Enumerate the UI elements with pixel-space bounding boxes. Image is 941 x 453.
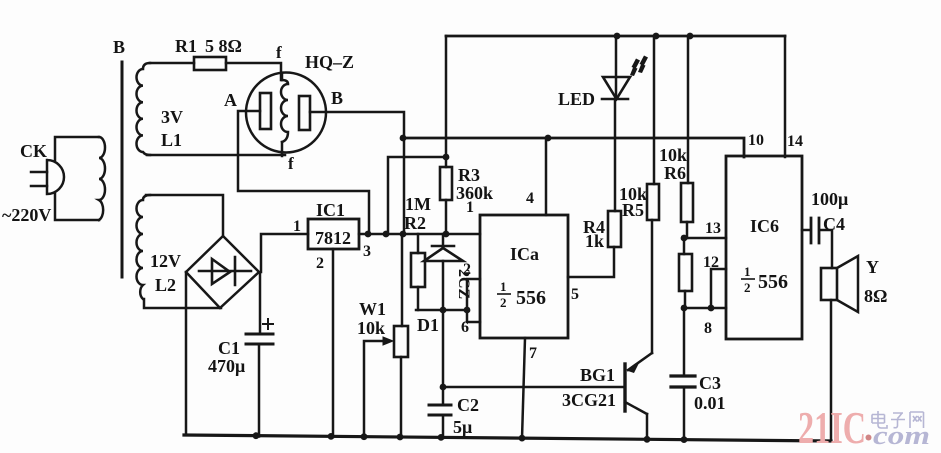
wire ICa pin4 to B-net xyxy=(545,138,548,215)
label 3V L1 xyxy=(161,107,183,150)
wire IC6 output stub to C4 xyxy=(802,229,810,232)
label pin 8 IC6 xyxy=(704,320,712,337)
tube HQ-Z envelope xyxy=(246,73,326,153)
capacitor C3 xyxy=(671,376,695,387)
svg-text:IC1: IC1 xyxy=(316,200,345,220)
label R6 value xyxy=(659,145,687,183)
winding L1 xyxy=(137,63,151,155)
svg-text:10: 10 xyxy=(748,132,764,149)
svg-text:100μ: 100μ xyxy=(811,189,848,209)
wire R6 bottom to node 13 xyxy=(686,222,689,238)
tube electrode B plate xyxy=(299,96,310,130)
wire R3 upper branch horizontal xyxy=(388,157,446,234)
regulator IC1 7812 box xyxy=(308,219,359,249)
svg-text:R3: R3 xyxy=(458,165,480,185)
label IC6 half 556 xyxy=(744,264,788,295)
svg-text:B: B xyxy=(331,88,343,108)
wire BG1 base wire xyxy=(443,386,624,389)
label D1 xyxy=(417,315,439,335)
resistor R7 unlabeled xyxy=(679,254,692,291)
wire node 8 down to C3 xyxy=(683,308,686,376)
label 2CZ rotated xyxy=(455,269,472,299)
label pin 1 IC1 xyxy=(293,218,301,235)
label pin 3 IC1 xyxy=(363,243,371,260)
svg-text:f: f xyxy=(276,43,282,62)
wire C4 to speaker xyxy=(820,230,832,268)
label CK xyxy=(20,141,47,161)
wire bridge right vertex to IC1 pin1 xyxy=(261,234,308,272)
wire top supply rail xyxy=(446,35,785,38)
svg-text:BG1: BG1 xyxy=(580,365,615,385)
svg-text:2: 2 xyxy=(316,255,324,272)
wire CK plug loop xyxy=(55,137,99,220)
label pin 7 ICa xyxy=(529,345,537,362)
svg-text:IC6: IC6 xyxy=(750,216,779,236)
svg-text:21IC: 21IC xyxy=(798,402,866,453)
svg-text:2: 2 xyxy=(744,280,751,295)
speaker Y cone xyxy=(837,256,858,312)
svg-text:1: 1 xyxy=(744,264,751,279)
label ICa half 556 xyxy=(500,279,546,310)
label B tube pin xyxy=(331,88,343,108)
svg-text:C1: C1 xyxy=(218,338,240,358)
label HQ-Z xyxy=(305,52,354,72)
label ICa xyxy=(510,244,539,264)
potentiometer W1 body xyxy=(394,326,408,357)
wire LED anode from top rail xyxy=(615,36,618,99)
label 7812 xyxy=(315,228,351,248)
svg-text:4: 4 xyxy=(526,190,534,207)
wire node 13 to IC6 pin 13 xyxy=(684,237,726,240)
svg-text:8: 8 xyxy=(704,320,712,337)
wire C3 to ground rail xyxy=(683,387,686,440)
LED light arrows xyxy=(630,56,648,77)
label R4 value xyxy=(583,217,605,251)
wire L2 bottom to bridge bottom vertex xyxy=(144,299,221,308)
svg-text:1M: 1M xyxy=(405,194,431,214)
BG1 emitter xyxy=(628,353,652,373)
wire ground bottom rail xyxy=(184,435,831,441)
label W1 value xyxy=(357,299,386,338)
tube top f stem xyxy=(281,73,284,80)
tube filament winding xyxy=(281,80,288,142)
svg-text:0.01: 0.01 xyxy=(694,393,726,413)
svg-text:C3: C3 xyxy=(699,373,721,393)
wire R3 bottom stub xyxy=(445,200,448,234)
wire bridge left vertex to ground rail xyxy=(185,272,188,435)
resistor R2 xyxy=(411,253,425,287)
label pin 14 IC6 xyxy=(787,133,803,150)
svg-text:7812: 7812 xyxy=(315,228,351,248)
svg-text:10k: 10k xyxy=(357,318,385,338)
resistor R6 xyxy=(681,183,693,222)
svg-text:5: 5 xyxy=(571,286,579,303)
wire W1 bottom to ground rail xyxy=(400,357,403,438)
svg-text:com: com xyxy=(873,421,930,450)
wire speaker to ground rail xyxy=(830,300,833,441)
svg-text:1: 1 xyxy=(500,279,507,294)
svg-text:R1: R1 xyxy=(175,36,197,56)
wire C1 to ground rail xyxy=(258,346,261,437)
label Y xyxy=(866,257,879,277)
label B transformer xyxy=(113,37,125,57)
svg-text:12: 12 xyxy=(703,254,719,271)
wire tube bottom f stem xyxy=(281,142,284,156)
wire left branch of top rail down to R3 xyxy=(445,36,448,157)
timer ICa half 556 box xyxy=(480,215,568,338)
svg-text:L2: L2 xyxy=(155,275,176,295)
label C3 value xyxy=(694,373,726,413)
C1 plus sign xyxy=(263,319,273,329)
svg-text:556: 556 xyxy=(758,271,788,293)
svg-text:5 8Ω: 5 8Ω xyxy=(205,36,242,56)
svg-text:360k: 360k xyxy=(456,183,493,203)
svg-text:f: f xyxy=(288,154,294,173)
svg-text:2: 2 xyxy=(463,261,471,278)
resistor R3 xyxy=(440,167,452,200)
label C2 value xyxy=(453,395,479,437)
svg-text:C4: C4 xyxy=(823,214,845,234)
wire IC6 pin 12 stub xyxy=(711,269,726,308)
svg-text:W1: W1 xyxy=(359,299,386,319)
svg-text:Y: Y xyxy=(866,257,879,277)
resistor R5 xyxy=(647,184,659,220)
LED diode xyxy=(602,77,630,99)
wire tube B terminal to B-net xyxy=(310,112,404,234)
label R1 value xyxy=(175,36,242,56)
wire R5 bottom to BG1 emitter xyxy=(651,220,654,353)
label R5 value xyxy=(619,184,647,220)
label 12V L2 xyxy=(150,251,181,295)
W1 wiper arrow xyxy=(383,337,393,345)
capacitor C2 xyxy=(429,405,451,415)
wire IC1 pin2 to ground rail xyxy=(332,249,335,437)
svg-text:D1: D1 xyxy=(417,315,439,335)
wire D1 cathode stub xyxy=(442,234,445,247)
plug CK xyxy=(47,160,64,194)
label pin 6 ICa xyxy=(461,319,469,336)
wire BG1 collector to ground rail xyxy=(646,414,649,440)
winding primary coil xyxy=(99,137,105,220)
wire R7 top stub xyxy=(683,238,686,254)
wire tube A terminal to +12V rail xyxy=(238,111,369,234)
wire R7 bottom stub xyxy=(684,291,687,308)
wire ICa pin5 to R4 xyxy=(568,247,614,277)
label ~220V xyxy=(2,205,51,225)
plug prong lower xyxy=(31,185,47,188)
wire ICa pin2 stub xyxy=(467,279,480,310)
svg-text:556: 556 xyxy=(516,287,546,309)
label 8 ohm xyxy=(864,286,887,306)
svg-text:14: 14 xyxy=(787,133,803,150)
wire W1 wiper to ground rail xyxy=(364,341,389,437)
svg-text:C2: C2 xyxy=(457,395,479,415)
svg-text:470μ: 470μ xyxy=(208,356,245,376)
svg-text:1: 1 xyxy=(293,218,301,235)
wire R2 top stub xyxy=(417,234,420,253)
label LED xyxy=(558,89,595,109)
bridge diode xyxy=(199,257,251,285)
label pin 12 IC6 xyxy=(703,254,719,271)
wire R5 top from top rail xyxy=(653,36,656,184)
svg-text:8Ω: 8Ω xyxy=(864,286,887,306)
svg-text:R2: R2 xyxy=(404,213,426,233)
label 3CG21 xyxy=(562,390,616,410)
svg-text:CK: CK xyxy=(20,141,47,161)
wire L1 bottom to tube bottom f xyxy=(147,154,285,157)
wire R1 to tube top f xyxy=(226,63,281,80)
svg-text:5μ: 5μ xyxy=(453,417,472,437)
BG1 collector xyxy=(625,402,647,414)
svg-text:LED: LED xyxy=(558,89,595,109)
wire R3 top stub xyxy=(445,157,448,167)
svg-text:2: 2 xyxy=(500,295,507,310)
svg-text:~220V: ~220V xyxy=(2,205,51,225)
wire D1 node down to C2 xyxy=(442,310,445,405)
label pin 1 ICa xyxy=(466,199,474,216)
transformer core xyxy=(121,62,124,277)
wire L2 top to bridge top vertex xyxy=(146,195,223,236)
svg-text:R5: R5 xyxy=(622,200,644,220)
svg-text:R6: R6 xyxy=(664,163,686,183)
svg-text:13: 13 xyxy=(705,220,721,237)
label BG1 xyxy=(580,365,615,385)
winding L2 xyxy=(137,195,151,299)
svg-text:3: 3 xyxy=(363,243,371,260)
label pin 10 IC6 xyxy=(748,132,764,149)
label 100u C4 xyxy=(811,189,848,234)
label pin 2 IC1 xyxy=(316,255,324,272)
tube electrode A plate xyxy=(260,93,271,129)
svg-text:B: B xyxy=(113,37,125,57)
plug prong upper xyxy=(31,171,47,174)
wire LED cathode to R4 top xyxy=(614,99,617,211)
speaker Y driver xyxy=(821,268,837,300)
svg-text:10k: 10k xyxy=(659,145,687,165)
svg-text:1k: 1k xyxy=(585,231,604,251)
wire C2 to ground rail xyxy=(442,415,445,438)
label pin 5 ICa xyxy=(571,286,579,303)
capacitor C1 xyxy=(246,334,273,344)
label pin 4 ICa xyxy=(526,190,534,207)
svg-text:3V: 3V xyxy=(161,107,183,127)
svg-text:6: 6 xyxy=(461,319,469,336)
label pin 2 ICa xyxy=(463,261,471,278)
wire node 8 to IC6 pin 8 xyxy=(683,307,726,310)
label A xyxy=(224,90,237,110)
svg-text:12V: 12V xyxy=(150,251,181,271)
svg-text:HQ–Z: HQ–Z xyxy=(305,52,354,72)
wire ICa pin7 to ground rail xyxy=(522,338,525,439)
capacitor C4 xyxy=(811,218,819,243)
wire D1 anode stub xyxy=(442,261,445,310)
svg-text:7: 7 xyxy=(529,345,537,362)
label 1M R2 xyxy=(404,194,431,233)
diode D1 2CZ xyxy=(424,246,463,261)
rectifier bridge diamond xyxy=(186,236,259,308)
label R3 value xyxy=(456,165,493,203)
wire IC6 pin 14 drop xyxy=(784,36,787,157)
svg-text:1: 1 xyxy=(466,199,474,216)
resistor R4 xyxy=(608,211,621,247)
wire R2 D1 bottom bus to ICa pin6 xyxy=(416,310,480,322)
wire +12V rail IC1 pin3 to ICa pin1 xyxy=(359,233,480,236)
wire R2 bottom stub xyxy=(417,287,420,310)
wire R6 top from top rail xyxy=(687,36,690,183)
wire W1 top feed xyxy=(401,234,404,326)
resistor R1 xyxy=(194,57,226,70)
label C1 value xyxy=(208,338,245,376)
label pin 13 IC6 xyxy=(705,220,721,237)
svg-text:A: A xyxy=(224,90,237,110)
label IC6 xyxy=(750,216,779,236)
svg-text:3CG21: 3CG21 xyxy=(562,390,616,410)
timer IC6 half 556 box xyxy=(726,156,802,339)
wire L1 top to R1 xyxy=(150,62,194,65)
transistor BG1 base bar xyxy=(623,364,626,411)
watermark 21IC.com logo xyxy=(798,402,930,453)
wire B-net horizontal rail xyxy=(403,138,744,157)
wire bridge right vertex down to C1 xyxy=(259,274,262,333)
label f top xyxy=(276,43,282,62)
label IC1 xyxy=(316,200,345,220)
label f bottom xyxy=(288,154,294,173)
svg-text:L1: L1 xyxy=(161,130,182,150)
svg-text:ICa: ICa xyxy=(510,244,539,264)
